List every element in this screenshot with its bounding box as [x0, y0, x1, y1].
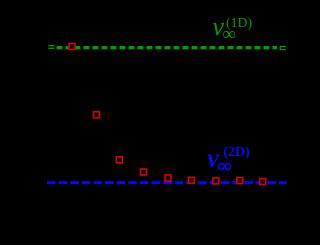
svg-text:(1D): (1D) [226, 15, 252, 31]
svg-text:(2D): (2D) [223, 145, 250, 160]
